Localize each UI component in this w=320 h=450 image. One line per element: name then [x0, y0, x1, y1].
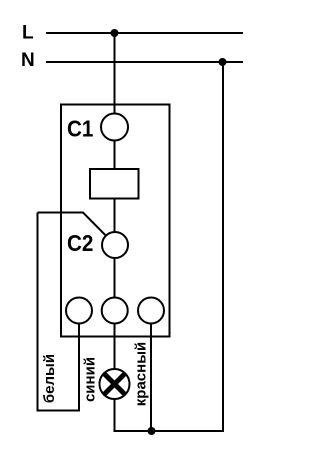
svg-text:C2: C2 [67, 230, 93, 257]
svg-text:красный: красный [133, 342, 150, 406]
svg-text:N: N [21, 50, 35, 71]
svg-text:синий: синий [82, 357, 99, 402]
svg-text:белый: белый [41, 354, 58, 403]
svg-text:L: L [22, 23, 34, 44]
svg-text:C1: C1 [67, 115, 93, 142]
